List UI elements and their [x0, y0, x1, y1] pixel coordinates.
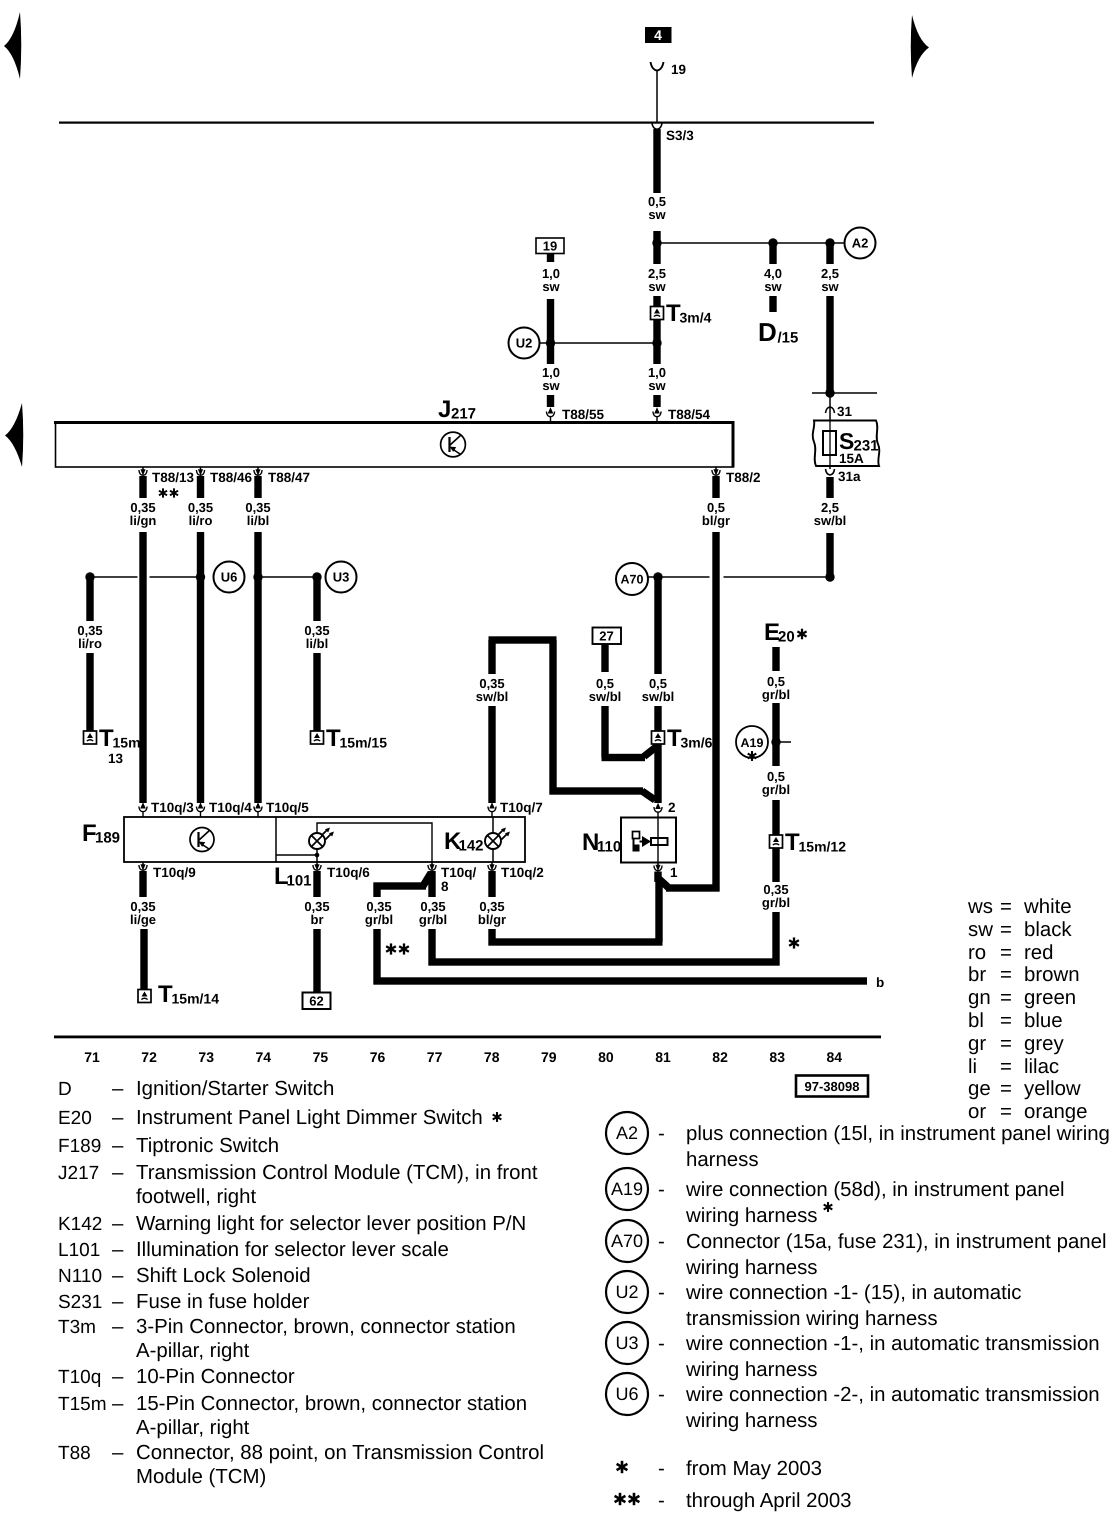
svg-text:U6: U6	[615, 1384, 638, 1404]
svg-text:Warning light for selector lev: Warning light for selector lever positio…	[136, 1213, 526, 1235]
svg-text:sw: sw	[542, 279, 560, 294]
svg-text:Ignition/Starter Switch: Ignition/Starter Switch	[136, 1078, 334, 1100]
double star mark at T88/13	[159, 488, 167, 497]
svg-text:br: br	[968, 964, 986, 986]
svg-text:black: black	[1024, 919, 1072, 941]
svg-text:217: 217	[451, 406, 476, 423]
svg-text:Instrument Panel Light Dimmer: Instrument Panel Light Dimmer Switch	[136, 1107, 483, 1129]
svg-text:S3/3: S3/3	[666, 128, 694, 143]
pin 2 of N110	[654, 803, 662, 818]
svg-text:3m/6: 3m/6	[681, 735, 713, 751]
svg-text:U3: U3	[615, 1333, 638, 1353]
star mark from May 2003	[789, 937, 799, 948]
svg-text:T10q/: T10q/	[441, 865, 477, 880]
svg-text:=: =	[1000, 1078, 1012, 1100]
svg-text:T88: T88	[58, 1443, 91, 1464]
svg-text:62: 62	[309, 994, 323, 1009]
wire to T15m/12	[772, 800, 779, 836]
page nav arrow top-left	[4, 12, 21, 79]
svg-text:=: =	[1000, 919, 1012, 941]
wire E20 down	[772, 647, 779, 671]
pin T10q/8	[428, 862, 436, 871]
svg-text:–: –	[112, 1366, 124, 1388]
svg-text:19: 19	[671, 62, 686, 77]
svg-text:wiring harness: wiring harness	[685, 1257, 817, 1279]
stub below 27	[601, 644, 608, 672]
bl/gr link vertical to N110 pin1	[655, 880, 662, 942]
svg-text:br: br	[311, 912, 324, 927]
tiptronic switch F189 box	[124, 817, 525, 862]
wire T88/47 stub	[254, 476, 261, 498]
wire to bottom corner x=776	[772, 912, 779, 966]
pin T10q/2	[488, 862, 496, 871]
svg-text:li/ro: li/ro	[78, 636, 102, 651]
svg-text:-: -	[658, 1384, 665, 1406]
svg-text:li/gn: li/gn	[130, 513, 157, 528]
svg-text:through April 2003: through April 2003	[686, 1490, 852, 1512]
svg-text:b: b	[876, 975, 884, 990]
svg-text:ws: ws	[967, 896, 993, 918]
wire to pin T88/55	[547, 395, 554, 407]
svg-text:Fuse in fuse holder: Fuse in fuse holder	[136, 1291, 310, 1313]
wire fuse to A70 line	[826, 533, 833, 577]
pin T88/54	[653, 407, 661, 422]
svg-text:from May 2003: from May 2003	[686, 1458, 822, 1480]
pin T10q/6	[313, 862, 321, 871]
wire 0,5 sw from S3/3	[653, 129, 660, 193]
main bus rule	[59, 122, 874, 124]
svg-text:grey: grey	[1024, 1033, 1064, 1055]
svg-text:li/ge: li/ge	[130, 912, 156, 927]
svg-text:li/bl: li/bl	[247, 513, 269, 528]
svg-text:77: 77	[427, 1049, 443, 1065]
svg-text:ge: ge	[968, 1078, 991, 1100]
svg-text:=: =	[1000, 964, 1012, 986]
svg-text:T88/47: T88/47	[268, 470, 310, 485]
loop left leg upper	[488, 640, 495, 674]
terminal fork 19 at top	[651, 62, 664, 71]
double star mark through April 2003	[386, 943, 396, 954]
svg-text:sw: sw	[648, 207, 666, 222]
svg-text:D: D	[58, 1079, 72, 1100]
svg-text:T10q/5: T10q/5	[266, 800, 309, 815]
wire U3 branch down x=317	[313, 577, 320, 621]
lamp K142	[485, 828, 510, 850]
svg-text:-: -	[658, 1490, 665, 1512]
svg-text:T3m: T3m	[58, 1317, 96, 1338]
wire to T3m/4	[653, 296, 660, 307]
svg-text:81: 81	[655, 1049, 671, 1065]
svg-text:J217: J217	[58, 1163, 99, 1184]
pin T10q/3	[139, 802, 147, 817]
svg-text:blue: blue	[1024, 1010, 1063, 1032]
svg-text:S231: S231	[58, 1292, 102, 1313]
svg-text:gr/bl: gr/bl	[365, 912, 393, 927]
svg-text:–: –	[112, 1162, 124, 1184]
wire T88/13 to T10q/3	[139, 532, 146, 803]
svg-text:T10q/9: T10q/9	[153, 865, 196, 880]
wire connection circle U2	[509, 328, 540, 359]
svg-text:142: 142	[459, 838, 484, 855]
svg-text:15m/: 15m/	[113, 735, 145, 751]
svg-text:–: –	[112, 1442, 124, 1464]
svg-text:L101: L101	[58, 1240, 100, 1261]
svg-text:110: 110	[597, 839, 621, 856]
svg-text:15-Pin Connector, brown, conne: 15-Pin Connector, brown, connector stati…	[136, 1393, 527, 1415]
svg-text:T15m: T15m	[58, 1394, 107, 1415]
svg-text:-: -	[658, 1231, 665, 1253]
junction dot x=258	[253, 572, 262, 581]
svg-text:A19: A19	[741, 736, 764, 750]
svg-text:wiring harness: wiring harness	[685, 1205, 817, 1227]
loop bottom horizontal	[550, 787, 644, 794]
svg-text:189: 189	[95, 830, 120, 847]
svg-text:84: 84	[827, 1049, 843, 1065]
wire to D/15	[769, 243, 776, 264]
svg-text:2: 2	[668, 800, 676, 815]
svg-text:T88/55: T88/55	[562, 407, 605, 422]
lamp L101	[309, 828, 334, 850]
svg-text:sw: sw	[542, 378, 560, 393]
connector circle A70	[616, 563, 648, 595]
wire T88/2 down to N110 pin1 corner	[712, 532, 719, 892]
svg-text:82: 82	[712, 1049, 728, 1065]
svg-text:–: –	[112, 1265, 124, 1287]
svg-text:sw: sw	[764, 279, 782, 294]
svg-text:=: =	[1000, 1033, 1012, 1055]
star after E20 legend entry	[493, 1112, 502, 1122]
svg-text:bl: bl	[968, 1010, 984, 1032]
lamp L101 lead down	[316, 849, 318, 862]
svg-text:Connector, 88 point, on Transm: Connector, 88 point, on Transmission Con…	[136, 1442, 544, 1464]
connector T15m/13 symbol	[84, 731, 97, 744]
svg-text:F189: F189	[58, 1136, 101, 1157]
pin 1 of N110	[654, 863, 662, 872]
electronics symbol in F189	[190, 828, 214, 852]
junction row y=243 line	[657, 242, 845, 244]
svg-text:gr: gr	[968, 1033, 986, 1055]
svg-text:wiring harness: wiring harness	[685, 1410, 817, 1432]
svg-text:1: 1	[670, 865, 678, 880]
svg-text:U3: U3	[333, 570, 350, 585]
svg-text:ro: ro	[968, 942, 986, 964]
svg-text:bl/gr: bl/gr	[702, 513, 730, 528]
pin T10q/9	[139, 862, 147, 871]
T10q/8 jog diagonal	[423, 873, 431, 886]
gr/bl link horizontal y=962	[429, 958, 780, 965]
fuse element S231	[829, 421, 831, 466]
pin T88/13	[139, 467, 147, 476]
F189 divider	[275, 817, 277, 862]
wire below fuse	[826, 477, 833, 498]
T10q/8 jog horizontal	[374, 882, 427, 889]
fork 31a	[826, 469, 835, 475]
svg-text:76: 76	[370, 1049, 386, 1065]
svg-text:T10q/2: T10q/2	[501, 865, 544, 880]
svg-text:/15: /15	[778, 330, 799, 347]
svg-text:15A: 15A	[839, 451, 864, 466]
K142 leads	[492, 817, 494, 833]
terminal box 62	[303, 993, 331, 1010]
svg-text:4: 4	[654, 27, 662, 43]
svg-text:74: 74	[256, 1049, 272, 1065]
svg-text:gr/bl: gr/bl	[762, 782, 790, 797]
junction dot x=90	[85, 572, 94, 581]
svg-text:lilac: lilac	[1024, 1056, 1059, 1078]
wire 27 branch down	[601, 706, 608, 758]
wire T10q/9 stub	[139, 871, 146, 897]
svg-text:19: 19	[543, 239, 557, 254]
svg-text:red: red	[1024, 942, 1053, 964]
svg-text:white: white	[1023, 896, 1072, 918]
svg-text:sw/bl: sw/bl	[589, 689, 622, 704]
wire T10q/2 stub	[488, 871, 495, 897]
page nav arrow top-right	[911, 15, 929, 78]
svg-text:-: -	[658, 1179, 665, 1201]
solenoid symbol in N110	[633, 818, 668, 863]
wire connection circle U3	[326, 562, 357, 593]
svg-text:Illumination for selector leve: Illumination for selector lever scale	[136, 1239, 449, 1261]
svg-text:green: green	[1024, 987, 1076, 1009]
svg-text:=: =	[1000, 987, 1012, 1009]
svg-text:15m/12: 15m/12	[799, 839, 847, 855]
pin T88/55	[546, 407, 554, 422]
svg-text:T88/54: T88/54	[668, 407, 711, 422]
svg-text:80: 80	[598, 1049, 614, 1065]
svg-text:T10q/3: T10q/3	[151, 800, 194, 815]
pin T10q/7	[488, 802, 496, 817]
svg-text:27: 27	[599, 629, 613, 644]
svg-text:73: 73	[198, 1049, 214, 1065]
svg-text:sw: sw	[968, 919, 993, 941]
svg-text:=: =	[1000, 942, 1012, 964]
pin T88/47	[254, 467, 262, 476]
svg-text:–: –	[112, 1135, 124, 1157]
svg-text:brown: brown	[1024, 964, 1080, 986]
svg-text:sw: sw	[648, 378, 666, 393]
corner 27 branch	[602, 754, 646, 761]
junction dot x=830	[825, 238, 834, 247]
wire A70 down to T3m/6	[654, 577, 661, 674]
svg-text:sw: sw	[821, 279, 839, 294]
svg-text:=: =	[1000, 1056, 1012, 1078]
svg-text:75: 75	[313, 1049, 329, 1065]
wire to junction row	[653, 231, 660, 264]
wire to T15m/15	[313, 653, 320, 731]
svg-text:gn: gn	[968, 987, 991, 1009]
wire to T15m/13	[86, 653, 93, 731]
sw/bl loop top horizontal	[489, 636, 557, 643]
stub right of A19 dot	[776, 741, 791, 743]
svg-text:31: 31	[837, 404, 853, 419]
footnote double star through April 2003	[615, 1493, 626, 1505]
inner thin frame around L101	[317, 823, 432, 862]
svg-text:A19: A19	[611, 1179, 643, 1199]
svg-text:sw/bl: sw/bl	[814, 513, 847, 528]
svg-text:K142: K142	[58, 1214, 102, 1235]
bl/gr link horizontal y=942	[489, 938, 663, 945]
svg-text:T88/46: T88/46	[210, 470, 253, 485]
U6 junction line with hop over li/gn wire	[90, 576, 138, 578]
bottom rule	[54, 1036, 881, 1039]
junction dot U2 x=657	[652, 338, 661, 347]
wire connection circle U6	[214, 562, 245, 593]
junction dot x=657	[652, 238, 661, 247]
svg-text:3-Pin Connector, brown, connec: 3-Pin Connector, brown, connector statio…	[136, 1316, 516, 1338]
A70 junction line with hop over bl/gr wire	[648, 576, 710, 578]
svg-text:-: -	[658, 1282, 665, 1304]
svg-text:8: 8	[441, 879, 449, 894]
svg-text:-: -	[658, 1458, 665, 1480]
wire connection circle A19 with star	[736, 726, 768, 758]
pin T10q/4	[196, 802, 204, 817]
TCM J217 box	[56, 422, 734, 467]
svg-text:78: 78	[484, 1049, 500, 1065]
svg-text:li/ro: li/ro	[189, 513, 213, 528]
wire x=377 stub	[373, 883, 380, 898]
svg-text:T10q/7: T10q/7	[500, 800, 543, 815]
wire to terminal 62	[313, 929, 320, 993]
svg-text:–: –	[112, 1213, 124, 1235]
thin link from divider to lamp	[276, 854, 317, 856]
svg-text:yellow: yellow	[1024, 1078, 1081, 1100]
svg-text:wire connection -1- (15), in a: wire connection -1- (15), in automatic	[685, 1282, 1021, 1304]
svg-text:A2: A2	[616, 1123, 638, 1143]
wire from fork 19 to bus bar	[656, 70, 658, 122]
wire T10q/6 stub	[313, 871, 320, 897]
svg-text:N110: N110	[58, 1266, 102, 1287]
svg-text:20: 20	[778, 629, 795, 646]
svg-text:72: 72	[141, 1049, 157, 1065]
svg-text:E20: E20	[58, 1108, 92, 1129]
pin T88/46	[196, 467, 204, 476]
diagonal joining T3m/6 wire	[644, 747, 656, 757]
junction dot A19	[771, 737, 780, 746]
loop left leg to T10q/7	[488, 706, 495, 803]
connector T15m/12 symbol	[770, 835, 783, 848]
svg-text:gr/bl: gr/bl	[419, 912, 447, 927]
svg-text:=: =	[1000, 896, 1012, 918]
svg-text:10-Pin Connector: 10-Pin Connector	[136, 1366, 295, 1388]
svg-text:-: -	[658, 1333, 665, 1355]
svg-text:li/bl: li/bl	[306, 636, 328, 651]
page nav arrow mid-left	[5, 403, 23, 467]
svg-text:–: –	[112, 1078, 124, 1100]
svg-text:sw/bl: sw/bl	[642, 689, 675, 704]
svg-text:15m/15: 15m/15	[340, 735, 388, 751]
wire below T15m/12	[772, 848, 779, 882]
loop right leg	[549, 640, 556, 795]
svg-text:transmission wiring harness: transmission wiring harness	[686, 1308, 938, 1330]
wire T3m/6 down to N110 pin 2	[654, 744, 661, 803]
fork S3/3	[652, 124, 662, 130]
wire T88/2 stub	[712, 476, 719, 498]
svg-text:sw: sw	[648, 279, 666, 294]
svg-text:Tiptronic Switch: Tiptronic Switch	[136, 1135, 279, 1157]
wire T88/46 stub	[197, 476, 204, 498]
svg-text:footwell, right: footwell, right	[136, 1186, 256, 1208]
wire T10q/2 down	[488, 929, 495, 946]
connection legend right column	[606, 1112, 648, 1154]
svg-text:harness: harness	[686, 1149, 759, 1171]
svg-text:plus connection (15l, in instr: plus connection (15l, in instrument pane…	[686, 1123, 1110, 1145]
stub below terminal 19	[547, 254, 554, 263]
connector T3m/4 symbol	[651, 307, 664, 320]
svg-text:U2: U2	[516, 336, 533, 351]
junction dot U2 x=550	[546, 338, 555, 347]
svg-text:T10q/4: T10q/4	[209, 800, 252, 815]
junction dot x=317	[312, 572, 321, 581]
svg-text:Shift Lock Solenoid: Shift Lock Solenoid	[136, 1265, 311, 1287]
svg-text:J: J	[438, 396, 451, 423]
svg-text:li: li	[968, 1056, 977, 1078]
svg-text:wiring harness: wiring harness	[685, 1359, 817, 1381]
svg-text:–: –	[112, 1291, 124, 1313]
svg-text:31a: 31a	[838, 469, 861, 484]
wire b horizontal	[374, 977, 868, 984]
svg-text:Module (TCM): Module (TCM)	[136, 1466, 266, 1488]
wire to A19 junction	[772, 703, 779, 766]
track marker box 4	[645, 27, 672, 43]
svg-text:–: –	[112, 1393, 124, 1415]
svg-text:T10q: T10q	[58, 1367, 101, 1388]
svg-text:Transmission Control Module (T: Transmission Control Module (TCM), in fr…	[136, 1162, 538, 1184]
svg-text:15m/14: 15m/14	[172, 991, 220, 1007]
wire x=432 down	[428, 929, 435, 966]
electronics symbol in J217	[441, 432, 466, 457]
svg-text:–: –	[112, 1239, 124, 1261]
wire A2 branch down	[826, 243, 833, 264]
svg-text:97-38098: 97-38098	[805, 1079, 860, 1094]
wire x=377 down	[373, 929, 380, 985]
svg-text:T88/13: T88/13	[152, 470, 195, 485]
wire down to fuse junction	[826, 296, 833, 391]
star after A19 legend entry	[824, 1202, 833, 1212]
connector T15m/14 symbol	[138, 990, 151, 1003]
wire to pin T88/54	[653, 395, 660, 407]
connector T15m/15 symbol	[311, 731, 324, 744]
svg-text:=: =	[1000, 1101, 1012, 1123]
svg-text:101: 101	[287, 873, 312, 890]
terminal box 19	[536, 238, 564, 254]
N110 pin1 wire and diagonal to T88/2 wire	[654, 872, 661, 883]
svg-text:-: -	[658, 1123, 665, 1145]
svg-text:71: 71	[84, 1049, 100, 1065]
connector T3m/6 symbol	[652, 731, 665, 744]
svg-text:wire connection (58d), in inst: wire connection (58d), in instrument pan…	[685, 1179, 1065, 1201]
svg-text:–: –	[112, 1316, 124, 1338]
junction line above S231	[812, 392, 877, 394]
pin T10q/5	[254, 802, 262, 817]
svg-text:U6: U6	[221, 570, 238, 585]
svg-text:sw/bl: sw/bl	[476, 689, 509, 704]
junction dot x=200	[196, 572, 205, 581]
terminal box 27	[593, 628, 622, 645]
svg-text:wire connection -1-, in automa: wire connection -1-, in automatic transm…	[685, 1333, 1100, 1355]
svg-text:Connector (15a, fuse 231), in: Connector (15a, fuse 231), in instrument…	[686, 1231, 1107, 1253]
diagram number box 97-38098	[796, 1076, 868, 1097]
wire T10q/8 straight down x=432	[428, 871, 435, 897]
svg-text:T10q/6: T10q/6	[327, 865, 370, 880]
svg-text:A-pillar, right: A-pillar, right	[136, 1340, 250, 1362]
fork 31	[826, 407, 835, 413]
wire U6 branch down x=90	[86, 577, 93, 621]
shift lock solenoid N110 box	[621, 818, 676, 863]
fuse holder S231 wavy box	[813, 421, 880, 467]
pin T88/2	[712, 467, 720, 476]
wire T88/13 stub	[139, 476, 146, 498]
U3 junction line	[258, 576, 317, 578]
